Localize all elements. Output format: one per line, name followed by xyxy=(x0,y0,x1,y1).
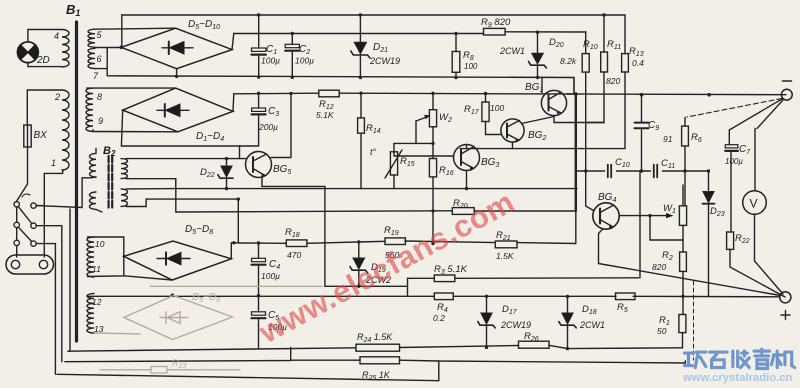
wire switch pole3 down xyxy=(36,244,55,375)
junction dot xyxy=(465,187,468,190)
resistor R1 xyxy=(679,315,686,348)
resistor R17 xyxy=(482,94,501,135)
capacitor C3 xyxy=(252,93,266,146)
resistor R4 xyxy=(434,293,453,300)
junction dots D18 xyxy=(566,295,569,298)
wire bridge3 right vertex to rail 243 xyxy=(231,243,238,259)
junction dots D21 xyxy=(359,13,362,16)
junction dots C9 xyxy=(640,93,644,97)
char kuang xyxy=(685,352,706,367)
bridge rectifier D1~D4 xyxy=(123,88,233,132)
char yin xyxy=(754,349,769,368)
capacitor C5 xyxy=(252,296,266,348)
winding 4 (B1 primary top) xyxy=(62,29,69,67)
junction dot D23 xyxy=(707,169,710,172)
svg-text:100µ: 100µ xyxy=(725,157,743,166)
svg-text:50: 50 xyxy=(657,326,667,336)
wire BG4 collector to W1 xyxy=(619,215,667,217)
wire dashed vertical x=693.5 xyxy=(693,281,695,360)
zener diode D17 xyxy=(478,296,495,347)
transistor BG5 xyxy=(246,152,272,178)
capacitor C7 xyxy=(725,130,738,232)
svg-text:100µ: 100µ xyxy=(295,56,314,66)
char shou xyxy=(733,351,749,367)
svg-text:2CW19: 2CW19 xyxy=(500,320,531,330)
wire switch pole1 to plug / winding 1 xyxy=(36,170,63,257)
junction dots D19 xyxy=(357,240,360,243)
wire vertical x=638.7 xyxy=(639,171,641,278)
wire rail 361 (R25 rail) xyxy=(65,360,685,363)
capacitor C4 xyxy=(252,243,266,296)
zener diode D19 xyxy=(350,242,368,286)
capacitor C1 xyxy=(252,15,266,77)
resistor R13 xyxy=(513,15,629,149)
winding 12-13 (B1 secondary bottom) xyxy=(87,294,94,334)
junction dots C1 xyxy=(257,13,260,16)
wire B2 sec tap to BG5 base xyxy=(126,158,246,160)
capacitor C2 xyxy=(285,34,299,78)
wire fuse to switch xyxy=(16,147,28,202)
svg-text:2: 2 xyxy=(54,92,60,102)
svg-text:D5~D8: D5~D8 xyxy=(185,224,213,236)
capacitor C10 xyxy=(608,165,611,178)
wire - to V xyxy=(757,100,783,129)
winding 2-1 (B1 primary bottom) xyxy=(62,90,69,170)
junction dots D20 xyxy=(536,31,539,34)
wire bridge1 right vertex up to rail 33.5 xyxy=(232,34,234,50)
svg-text:100: 100 xyxy=(490,103,504,113)
wire B2 primary mid tap xyxy=(92,176,96,178)
mains plug xyxy=(6,255,54,274)
junction dot R2 rail296 xyxy=(681,295,684,298)
wire B2 sec tap2 xyxy=(126,179,176,189)
negative terminal xyxy=(781,81,792,100)
winding 5-6 (B1 secondary top) xyxy=(88,29,95,47)
wire bottom rail corner to main rail xyxy=(573,78,575,95)
wire vertical x=407.5 (R3 tie) xyxy=(407,278,409,296)
wire lamp bottom to winding 4 bottom xyxy=(28,63,62,67)
voltmeter V xyxy=(743,129,783,295)
svg-text:t°: t° xyxy=(370,147,377,157)
wire D19 bottom rail y=286 xyxy=(325,285,408,287)
resistor R26 xyxy=(519,341,550,348)
resistor R20 xyxy=(452,208,576,215)
wire rail C hook xyxy=(684,361,686,363)
svg-text:2CW1: 2CW1 xyxy=(579,320,605,330)
wire B2 sec tap4 to R18 rail xyxy=(126,199,238,243)
char shi xyxy=(710,352,727,367)
svg-text:2CW19: 2CW19 xyxy=(369,56,400,66)
potentiometer W2 xyxy=(416,93,437,158)
switch (3-position selector) xyxy=(14,194,36,257)
wire rail 210.5 xyxy=(176,211,452,212)
junction dot C3 top xyxy=(257,92,260,95)
wire tap5 to bridge1 top vertex xyxy=(95,28,176,29)
wire R3 branch xyxy=(408,277,639,280)
resistor R8 xyxy=(452,34,460,78)
resistor R12 xyxy=(319,90,339,97)
svg-text:820: 820 xyxy=(606,76,620,86)
svg-text:0.2: 0.2 xyxy=(433,313,445,323)
winding 10-11 (B1 secondary low) xyxy=(87,237,94,277)
transistor BG2 xyxy=(501,117,554,149)
wire lamp top to winding 4 top xyxy=(28,30,62,42)
wire switch pole2 down xyxy=(36,226,62,362)
wire dashed from - to R6 xyxy=(687,99,782,118)
junction bridge1 left vertex xyxy=(120,46,124,50)
wire rail 93.5 right part xyxy=(339,93,786,95)
wire C10/C11 rail y=171 xyxy=(577,170,709,172)
bridge rectifier D5~D8 xyxy=(124,241,232,280)
wire winding11 to bridge3 bottom area xyxy=(88,256,173,280)
svg-text:8.2k: 8.2k xyxy=(560,56,577,66)
junction dot xyxy=(431,142,434,145)
wire drop to bridge1 left vertex xyxy=(121,15,123,47)
wire bridge1 bottom vertex drop xyxy=(176,69,178,77)
watermark elecfans xyxy=(253,184,520,351)
positive terminal xyxy=(780,292,791,320)
svg-text:2D: 2D xyxy=(36,55,50,66)
wire winding8 to bridge2 top vertex xyxy=(87,87,176,89)
svg-text:12: 12 xyxy=(92,297,102,307)
wire rail 243 (R18/R19 rail) xyxy=(238,241,576,244)
svg-text:0.4: 0.4 xyxy=(632,58,644,68)
wire vertical link B2 to rails xyxy=(175,179,177,212)
wire vertical 576 to R21 rail xyxy=(575,211,577,244)
junction dot R16 bottom rail xyxy=(431,209,434,212)
resistor R5 xyxy=(616,293,636,300)
svg-text:9: 9 xyxy=(98,116,103,126)
resistor R2 xyxy=(680,240,687,315)
capacitor C11 xyxy=(654,165,657,178)
junction dot BG4 base drop xyxy=(584,169,587,172)
svg-text:D1~D4: D1~D4 xyxy=(196,131,224,143)
wire emitter rail y=148.6 (BG2-BG3-R13) xyxy=(460,148,513,150)
zener diode D20 xyxy=(529,32,547,77)
resistor R10 xyxy=(582,32,589,171)
junction dot R14 top xyxy=(359,92,362,95)
zener diode D21 xyxy=(351,15,370,78)
wire BG1 emitter rail y=122.5 xyxy=(554,122,604,124)
svg-text:1: 1 xyxy=(51,158,56,168)
svg-text:1.5K: 1.5K xyxy=(496,251,514,261)
resistor R24 xyxy=(356,344,400,351)
zener diode D22 xyxy=(218,159,233,189)
transistor BG3 xyxy=(454,145,480,189)
bridge rectifier D5~D10 xyxy=(121,28,232,68)
svg-text:R9 820: R9 820 xyxy=(481,17,511,29)
resistor R14 xyxy=(358,93,365,188)
resistor R11 xyxy=(586,15,608,123)
wire winding9 stub xyxy=(92,130,94,132)
wire BG3 base from R15 xyxy=(394,153,454,157)
svg-text:10: 10 xyxy=(95,239,105,249)
svg-text:820: 820 xyxy=(652,262,666,272)
resistor R22 xyxy=(727,232,785,297)
junction dot R11 top xyxy=(602,13,605,16)
resistor R3 xyxy=(434,275,455,282)
junction dots R8 xyxy=(454,32,457,35)
wire tap6 to bridge1 left vertex xyxy=(95,47,121,49)
svg-text:100: 100 xyxy=(464,62,478,71)
wire BG1 collector to rail xyxy=(567,93,576,95)
wire wiper return y=143.4 xyxy=(394,142,433,144)
junction dot xyxy=(237,197,240,200)
junction dots R6 xyxy=(683,169,686,172)
svg-text:200µ: 200µ xyxy=(258,122,278,132)
wire switch pole1 to B2 primary xyxy=(36,178,92,208)
wire left verticals to bottom rails xyxy=(68,209,70,351)
wire rail 296 (main positive rail) xyxy=(88,295,780,298)
wire winding9 to bridge2 bottom vertex xyxy=(93,131,178,133)
svg-text:V: V xyxy=(750,197,758,211)
diode D23 xyxy=(703,171,715,296)
junction dot xyxy=(648,214,651,217)
potentiometer W1 xyxy=(679,185,686,240)
wire - to C7 xyxy=(729,99,782,130)
junction dots D17 xyxy=(485,295,488,298)
resistor R19 xyxy=(385,238,405,245)
junction dot xyxy=(289,92,292,95)
wire BG5 emitter down-right xyxy=(262,177,325,286)
fuse BX xyxy=(24,125,31,147)
ghost resistor R23 xyxy=(100,367,240,374)
wire B2 primary bottom stub xyxy=(96,209,102,212)
wire top rail (y=15) xyxy=(122,14,625,16)
svg-text:BX: BX xyxy=(34,130,48,141)
junction dot xyxy=(574,92,578,96)
svg-text:8: 8 xyxy=(97,92,102,102)
wire BG4 emitter diagonal to + terminal xyxy=(599,264,781,296)
resistor R21 xyxy=(495,241,517,248)
svg-text:R3 5.1K: R3 5.1K xyxy=(434,264,468,276)
junction dots C2 xyxy=(291,32,294,35)
ghost bridge D5~D8 (faint reprint) xyxy=(95,286,322,339)
resistor R25 xyxy=(360,357,400,364)
winding B2 primary xyxy=(89,153,96,177)
winding B2 secondary xyxy=(121,159,128,179)
transformer B1 core xyxy=(75,22,78,341)
wire tap7 rail (bottom rail y=76.5) xyxy=(95,48,574,78)
svg-text:4: 4 xyxy=(54,31,59,41)
wire rail 93.5 left part xyxy=(234,92,319,95)
wire B2 sec tap3 (rail 188.6 start) xyxy=(126,188,176,190)
wire B2 primary top stub xyxy=(95,149,97,154)
resistor R16 xyxy=(429,159,436,244)
svg-text:11: 11 xyxy=(92,264,101,274)
junction dot R17 top xyxy=(484,92,487,95)
indicator lamp 2D xyxy=(17,42,38,63)
wire rail 348 (R24/R26 rail) xyxy=(68,345,683,351)
capacitor C9 xyxy=(635,95,649,172)
resistor R18 xyxy=(286,240,307,247)
wire link rail348-rail361 xyxy=(290,348,292,361)
svg-text:5.1K: 5.1K xyxy=(316,110,334,120)
svg-text:2CW1: 2CW1 xyxy=(499,46,525,56)
wire winding10 to bridge3 left vertex xyxy=(88,237,124,256)
wire drop to BG5 base wire xyxy=(239,146,241,159)
thermistor R15 with t arrow xyxy=(385,143,402,188)
wire thick vertical x=576 xyxy=(575,94,577,211)
winding 8-9 (B1 secondary mid) xyxy=(86,88,93,131)
junction dot W2 top xyxy=(431,92,434,95)
transformer B2 core xyxy=(109,156,113,210)
junction dots C4 xyxy=(257,241,260,244)
wire rail 188.6 (BG5 emitter rail) xyxy=(176,188,577,190)
zener diode D18 xyxy=(559,297,576,349)
wire rail 33.5 xyxy=(234,32,586,34)
svg-text:D5~D8: D5~D8 xyxy=(192,292,220,304)
junction dot xyxy=(232,241,235,244)
char ji xyxy=(771,351,794,367)
junction xyxy=(175,75,178,78)
wire bridge2 right vertex up xyxy=(232,94,235,112)
svg-text:91: 91 xyxy=(663,134,673,144)
wire winding2 top to fuse xyxy=(27,90,62,125)
junction dot ghost vertex xyxy=(171,294,175,298)
transistor BG4 xyxy=(586,171,620,264)
svg-text:100µ: 100µ xyxy=(261,56,280,66)
wire BG5 collector up xyxy=(271,93,291,157)
junction dots D22 xyxy=(225,157,228,160)
resistor R6 xyxy=(682,118,689,206)
wire bottom rail D xyxy=(57,361,439,381)
wire W1 wiper loop xyxy=(650,216,683,240)
svg-text:470: 470 xyxy=(287,250,301,260)
wire bridge2 left vertex down and right (to C3 bottom) xyxy=(121,110,258,146)
transistor BG1 xyxy=(541,78,566,122)
svg-text:100µ: 100µ xyxy=(261,271,280,281)
svg-text:6: 6 xyxy=(97,54,102,64)
resistor R9 xyxy=(484,28,506,35)
